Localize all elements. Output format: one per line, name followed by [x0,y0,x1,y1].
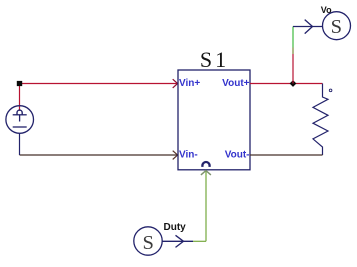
wire: red vertical from junction up [292,54,294,84]
node A (junction dot top-left) [17,81,22,86]
wire: top rail red from node to Vin+ [20,83,178,85]
probe U2 (Vo S-probe circle) [323,12,351,40]
svg-text:Vin-: Vin- [179,149,198,160]
wire: green duty vertical up to D pin [205,171,207,241]
node B (junction dot right) [290,80,297,87]
svg-text:Vout-: Vout- [225,149,250,160]
resistor R1 [313,84,328,156]
op-amp block U1 (S1 converter box) [178,70,250,170]
pin arrow into Vin- [173,151,178,160]
pin D marker (rotated D arch) [202,162,209,167]
wire: red from junction to resistor top [293,83,323,85]
wire: olive transition segment [292,48,294,55]
duty source pin wire [162,240,193,242]
wire: green duty horizontal [193,240,206,242]
svg-text:S: S [331,16,342,38]
resistor polarity dot [329,89,332,92]
wire: green vertical probe segment [292,27,294,48]
duty source pin arrow [176,235,184,247]
voltage source V1 [6,106,34,134]
svg-text:Vout+: Vout+ [222,78,249,89]
probe Vo pin arrow [305,20,313,34]
svg-text:Vo: Vo [321,5,332,15]
wire: red vertical from node down to source top [19,84,21,111]
wire: bottom rail maroon from source corner to Vin- [20,154,178,156]
pin arrow into Vin+ [173,79,178,88]
wire: navy lead from source bottom down to corner [19,133,21,155]
svg-text:S1: S1 [200,47,229,72]
probe Vo pin wire [293,26,322,28]
svg-text:S: S [142,232,153,254]
wire: maroon from Vout- to resistor bottom [250,154,323,156]
source U3 (Duty S-source circle) [134,227,162,255]
wire: red from Vout+ to junction [250,83,293,85]
svg-text:Vin+: Vin+ [179,78,200,89]
svg-text:Duty: Duty [164,222,187,233]
duty arrow into D pin [201,171,211,175]
